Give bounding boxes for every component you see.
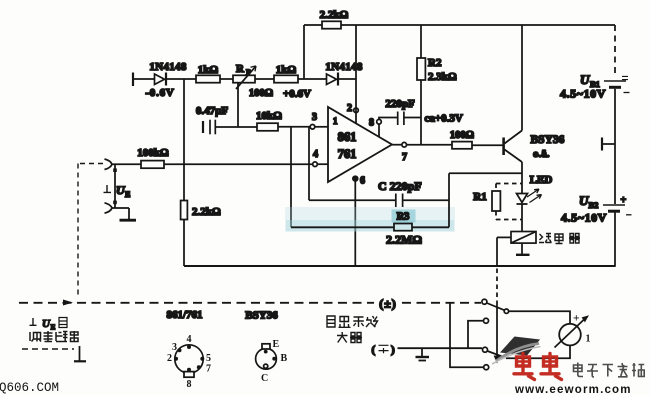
svg-text:2: 2 — [167, 353, 172, 364]
svg-text:4: 4 — [187, 334, 192, 345]
svg-text:C 220pF: C 220pF — [378, 179, 422, 193]
right rail to bottom rail — [614, 213, 616, 267]
op-amp U1 861/761 triangle — [328, 107, 392, 182]
svg-text:3: 3 — [312, 112, 317, 123]
pivot contact — [504, 309, 508, 313]
resistor 2.2k (top rail) — [320, 9, 349, 29]
watermark chong char 2 (red) — [541, 354, 562, 380]
wire (minus-plus) to contact 3 — [372, 344, 483, 356]
svg-text:4: 4 — [313, 149, 318, 160]
top rail wire — [304, 24, 615, 26]
svg-text:1: 1 — [586, 334, 591, 345]
svg-text:0.47µF: 0.47µF — [196, 105, 229, 117]
watermark text dian-zi-xia-zai-zhan (gray) — [574, 363, 645, 378]
battery UB2 4.5-10V — [561, 193, 632, 225]
svg-text:R3: R3 — [397, 212, 410, 223]
switch contact 1 — [482, 299, 487, 304]
svg-text:(±): (±) — [379, 297, 397, 311]
switch contact 2 with link wire — [468, 318, 489, 348]
svg-text:861: 861 — [338, 130, 357, 144]
svg-text:3: 3 — [172, 342, 177, 353]
pinout circle BSY36 E B C — [256, 339, 288, 384]
capacitor C 220pF feedback — [309, 179, 449, 207]
switch arm 1 — [487, 303, 505, 310]
svg-text:2.2MΩ: 2.2MΩ — [386, 233, 422, 247]
battery UB1 4.5-10V — [560, 72, 630, 101]
capacitor 0.47uF with open terminal — [196, 105, 257, 134]
terminal input bar (clamp chain left end) — [132, 73, 134, 87]
wire — [166, 78, 196, 80]
wire input — [112, 163, 141, 165]
terminal stub on right rail — [602, 138, 615, 151]
relay actuator link to switch — [494, 237, 501, 363]
svg-text:8: 8 — [369, 118, 374, 129]
svg-text:2: 2 — [347, 103, 352, 114]
label zi-xian-shi-fang (display amplifier) line1 — [327, 316, 378, 327]
transistor Q1 BSY36 — [504, 131, 565, 163]
meter M1 — [555, 313, 591, 348]
resistor 1k (left) — [196, 64, 220, 83]
resistor 100k input — [137, 147, 169, 168]
svg-text:4.5~10V: 4.5~10V — [560, 87, 606, 101]
svg-text:100Ω: 100Ω — [450, 130, 474, 141]
resistor R2 2.3k — [417, 25, 457, 145]
svg-text:E: E — [273, 339, 280, 350]
pin 6 — [353, 176, 365, 267]
pinout circle 861/761 — [167, 334, 211, 390]
highlight marker (cyan) over R3 wire — [285, 207, 455, 232]
svg-text:6: 6 — [360, 176, 365, 187]
wire to transistor base — [472, 144, 503, 146]
svg-text:BSY36: BSY36 — [531, 134, 565, 146]
svg-text:+: + — [621, 195, 627, 206]
capacitor 220pF (pin8 to R2 node) — [385, 98, 421, 125]
bottom rail wire — [184, 265, 616, 267]
feedback node vertical and wire to emitter — [449, 173, 522, 227]
svg-text:5: 5 — [206, 353, 211, 364]
wire 100k to pin4 — [164, 163, 313, 165]
svg-text:1kΩ: 1kΩ — [198, 64, 219, 76]
svg-text:R: R — [236, 63, 245, 75]
watermark Q606.COM — [0, 381, 59, 395]
LED with light arrows — [517, 174, 553, 204]
svg-text:E: E — [51, 323, 56, 332]
collector wire up to top rail — [521, 25, 523, 131]
ground on minus wire — [416, 349, 430, 361]
svg-text:2.2kΩ: 2.2kΩ — [192, 206, 221, 218]
svg-text:C: C — [261, 373, 268, 384]
svg-text:B2: B2 — [589, 200, 599, 210]
resistor 100ohm output — [450, 130, 474, 149]
feedback vertical to C wire — [308, 127, 310, 200]
pinout label BSY36 — [245, 310, 278, 322]
wire relay to actuator line — [497, 236, 511, 238]
svg-text:7: 7 — [402, 152, 407, 163]
wire 10k to pin3 — [278, 126, 310, 128]
pinout label 861/761 — [166, 309, 202, 321]
svg-text:E: E — [125, 190, 130, 199]
input terminal upper — [105, 159, 113, 170]
wire to meter top — [509, 311, 570, 323]
resistor R3 2.2M feedback — [291, 212, 449, 247]
svg-text:U: U — [580, 72, 590, 87]
potentiometer Rp 100ohm — [233, 63, 273, 99]
svg-text:7: 7 — [206, 364, 211, 375]
wire LED to relay — [521, 204, 523, 232]
wire — [255, 78, 274, 80]
svg-text:R2: R2 — [428, 57, 442, 69]
resistor 2.2k shunt and vertical from D1 node — [181, 79, 221, 266]
svg-text:BSY36: BSY36 — [245, 310, 278, 322]
dashed line to switch (plus-minus) — [19, 297, 481, 311]
wire — [133, 78, 154, 80]
watermark chong char 1 (red) — [514, 354, 535, 380]
svg-text:4.5~10V: 4.5~10V — [561, 211, 607, 225]
svg-text:8: 8 — [187, 379, 192, 390]
wire pin2 rail vertical — [355, 25, 357, 123]
relay label (jì-diàn-qì) — [539, 234, 580, 244]
input terminal lower with ground — [105, 203, 137, 220]
svg-text:U: U — [579, 193, 589, 208]
emitter wire down — [521, 162, 523, 194]
svg-text:): ) — [391, 344, 395, 356]
wire and +0.6V node — [283, 79, 326, 100]
node label ca+0.3V — [425, 113, 463, 125]
label line2 (ce-liang-shu-chu) — [30, 331, 78, 342]
svg-text:861/761: 861/761 — [166, 309, 202, 321]
wire — [220, 78, 233, 80]
right rail dashed from top — [614, 25, 616, 77]
resistor 10k — [256, 110, 282, 131]
right rail between batteries — [614, 89, 616, 204]
svg-text:P: P — [246, 68, 251, 77]
label UE input — [104, 183, 131, 199]
svg-text:761: 761 — [338, 147, 357, 161]
switch contact 3 — [483, 347, 488, 352]
svg-text:www.eeworm.com: www.eeworm.com — [514, 384, 632, 395]
svg-text:-0.6V: -0.6V — [145, 87, 174, 99]
pin 3 — [310, 112, 328, 129]
svg-text:o.ä.: o.ä. — [533, 148, 550, 160]
svg-text:100Ω: 100Ω — [249, 88, 273, 99]
wire node +0.6V up to top rail — [303, 25, 305, 79]
watermark url www.eeworm.com — [514, 384, 632, 395]
dashed output stub lower with termination — [22, 346, 86, 361]
svg-text:R1: R1 — [473, 191, 486, 203]
switch arm 2 — [487, 351, 505, 358]
diode D2 1N4148 — [325, 61, 362, 86]
input jack link vertical — [113, 164, 117, 208]
svg-text:100kΩ: 100kΩ — [137, 147, 169, 159]
svg-text:+: + — [573, 313, 580, 325]
pin 2 — [347, 103, 358, 114]
resistor 1k (right) — [274, 64, 298, 83]
wire diode D2 to pin2 rail — [338, 78, 356, 80]
watermark logo hat — [492, 337, 541, 365]
svg-text:10kΩ: 10kΩ — [256, 110, 282, 122]
shield dashed vertical from input — [78, 164, 103, 298]
feedback vertical to R3 wire — [290, 127, 292, 228]
arrow on output dashed line — [63, 300, 73, 306]
pin 4 — [313, 149, 328, 167]
label UE from measuring output line1 — [30, 318, 68, 332]
svg-text:1kΩ: 1kΩ — [276, 64, 297, 76]
svg-text:1N4148: 1N4148 — [149, 61, 186, 73]
svg-text:ca+0.3V: ca+0.3V — [425, 113, 463, 125]
svg-text:2.3kΩ: 2.3kΩ — [428, 71, 457, 83]
svg-text:2.2kΩ: 2.2kΩ — [320, 9, 349, 21]
pin 7 output — [392, 142, 452, 163]
svg-text:1N4148: 1N4148 — [325, 61, 362, 73]
svg-text:220pF: 220pF — [385, 98, 415, 110]
diode D1 1N4148 — [145, 61, 186, 99]
svg-text:(: ( — [372, 344, 376, 356]
wire meter bottom to arm2 — [506, 345, 570, 358]
svg-text:1: 1 — [333, 116, 338, 126]
svg-text:B: B — [281, 353, 288, 364]
pin 8 with wire to 220pF — [369, 118, 397, 137]
wiper wire down from Rp — [237, 83, 239, 127]
resistor R1 with dashed bypass box — [473, 184, 522, 220]
relay coil box — [511, 232, 536, 244]
svg-text:+0.6V: +0.6V — [283, 88, 311, 100]
switch contact 4 with link wire — [450, 303, 489, 370]
svg-text:Q606.COM: Q606.COM — [0, 381, 59, 395]
label da-qi line2 — [337, 332, 362, 343]
svg-text:LED: LED — [530, 174, 553, 186]
ground below relay — [516, 243, 530, 255]
